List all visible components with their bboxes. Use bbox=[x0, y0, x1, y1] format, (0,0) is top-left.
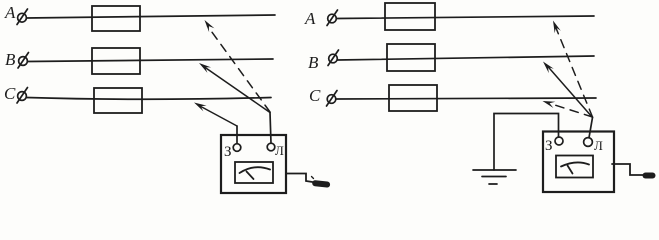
probe lead wire (left meter) bbox=[286, 174, 313, 183]
svg-text:C: C bbox=[4, 84, 16, 103]
svg-text:З: З bbox=[224, 144, 232, 160]
megohmmeter body (right) bbox=[543, 132, 614, 193]
wire from Л up (right meter) bbox=[589, 118, 593, 138]
svg-text:З: З bbox=[545, 138, 553, 154]
svg-text:Л: Л bbox=[594, 138, 603, 153]
alternative test lead to wire C (right, dashed) bbox=[550, 104, 593, 118]
terminal З (right meter) bbox=[555, 137, 563, 145]
wire from З to earth (right meter) bbox=[494, 114, 559, 171]
wire C (right phase line) bbox=[336, 98, 596, 99]
terminal З (left meter) bbox=[233, 144, 241, 152]
meter scale arc (right) bbox=[561, 162, 589, 166]
wire C (left phase line) bbox=[27, 98, 272, 100]
test lead to wire B (right, solid arrow) bbox=[547, 65, 593, 118]
svg-text:A: A bbox=[4, 3, 16, 22]
terminal Л (left meter) bbox=[267, 143, 275, 151]
arrowhead on wire B (right) bbox=[543, 62, 554, 74]
meter needle (right) bbox=[568, 166, 573, 174]
ground symbol bbox=[473, 170, 516, 184]
wire B (right phase line) bbox=[338, 56, 595, 60]
meter scale window (left) bbox=[235, 162, 273, 183]
arrowhead on wire C (right) bbox=[543, 101, 556, 108]
meter needle (left) bbox=[247, 172, 254, 180]
fuse FB (left) bbox=[92, 48, 140, 74]
test lead to wire C (left, solid arrow) bbox=[199, 106, 237, 127]
svg-text:B: B bbox=[308, 53, 319, 72]
wire from З up (left meter) bbox=[236, 126, 238, 144]
test lead to wire B (left, solid arrow) bbox=[203, 66, 270, 113]
fuse FA (right) bbox=[385, 3, 435, 30]
probe handle tick (left meter) bbox=[312, 177, 314, 179]
terminal B (right) bbox=[328, 50, 339, 66]
terminal C (right) bbox=[327, 91, 338, 107]
wire B (left phase line) bbox=[28, 59, 274, 62]
terminal A (left) bbox=[17, 9, 28, 25]
probe lead wire (right meter) bbox=[612, 164, 643, 175]
svg-text:Л: Л bbox=[275, 143, 284, 158]
fuse FC (right) bbox=[389, 85, 437, 111]
alternative test lead to wire A (left, dashed) bbox=[208, 26, 271, 112]
svg-text:B: B bbox=[5, 50, 16, 69]
fuse FC (left) bbox=[94, 88, 142, 113]
wire from Л up (left meter) bbox=[270, 113, 271, 144]
svg-text:A: A bbox=[304, 9, 316, 28]
fuse FA (left) bbox=[92, 6, 140, 31]
probe handle (right meter) bbox=[643, 173, 656, 179]
terminal C (left) bbox=[17, 88, 28, 104]
meter scale arc (left) bbox=[240, 167, 271, 173]
arrowhead on wire C (left) bbox=[194, 103, 207, 112]
fuse FB (right) bbox=[387, 44, 435, 71]
meter scale window (right) bbox=[556, 156, 593, 178]
arrowhead on wire A (right) bbox=[553, 21, 561, 34]
wire A (right phase line) bbox=[337, 16, 595, 19]
terminal B (left) bbox=[18, 53, 29, 69]
probe handle (left meter) bbox=[312, 180, 331, 188]
arrowhead on wire B (left) bbox=[199, 63, 211, 73]
alternative test lead to wire A (right, dashed) bbox=[556, 28, 593, 117]
terminal Л (right meter) bbox=[584, 138, 593, 147]
terminal A (right) bbox=[327, 10, 338, 26]
megohmmeter body (left) bbox=[221, 135, 286, 193]
arrowhead on wire A (left) bbox=[205, 20, 215, 32]
svg-text:C: C bbox=[309, 86, 321, 105]
wire A (left phase line) bbox=[27, 15, 276, 18]
